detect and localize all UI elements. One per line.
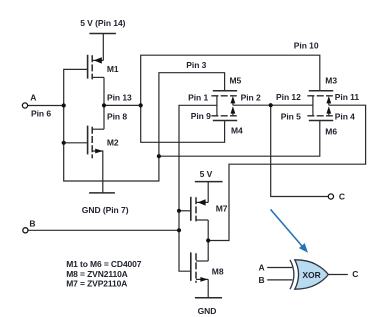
svg-text:5 V (Pin 14): 5 V (Pin 14) <box>80 18 125 28</box>
svg-text:A: A <box>259 262 265 272</box>
svg-text:M7 = ZVP2110A: M7 = ZVP2110A <box>66 279 127 289</box>
svg-text:Pin 11: Pin 11 <box>335 92 360 102</box>
svg-text:Pin 4: Pin 4 <box>335 111 355 121</box>
svg-text:A: A <box>30 92 36 102</box>
svg-text:XOR: XOR <box>302 270 320 280</box>
svg-text:M8: M8 <box>212 266 224 276</box>
svg-text:M2: M2 <box>107 137 119 147</box>
svg-text:Pin 5: Pin 5 <box>281 111 301 121</box>
svg-text:C: C <box>352 269 358 279</box>
svg-text:M8 = ZVN2110A: M8 = ZVN2110A <box>66 269 128 279</box>
svg-text:B: B <box>259 275 265 285</box>
svg-text:Pin 12: Pin 12 <box>276 92 301 102</box>
svg-text:Pin 3: Pin 3 <box>186 60 206 70</box>
svg-text:GND: GND <box>198 306 217 316</box>
svg-text:Pin 2: Pin 2 <box>241 92 261 102</box>
svg-text:M5: M5 <box>230 76 242 86</box>
svg-text:Pin 9: Pin 9 <box>191 111 211 121</box>
svg-text:GND (Pin 7): GND (Pin 7) <box>82 205 129 215</box>
svg-text:M4: M4 <box>231 126 243 136</box>
svg-text:B: B <box>29 219 35 229</box>
svg-text:M7: M7 <box>216 204 228 214</box>
svg-text:Pin 8: Pin 8 <box>107 112 127 122</box>
svg-text:Pin 13: Pin 13 <box>107 92 132 102</box>
svg-text:M3: M3 <box>325 76 337 86</box>
svg-text:M1: M1 <box>107 64 119 74</box>
svg-text:Pin 6: Pin 6 <box>31 108 51 118</box>
svg-text:Pin 10: Pin 10 <box>294 41 319 51</box>
svg-text:C: C <box>339 192 345 202</box>
svg-text:M6: M6 <box>325 126 337 136</box>
svg-text:Pin 1: Pin 1 <box>188 92 208 102</box>
svg-text:5 V: 5 V <box>200 169 213 179</box>
svg-text:M1 to M6 = CD4007: M1 to M6 = CD4007 <box>66 259 142 269</box>
